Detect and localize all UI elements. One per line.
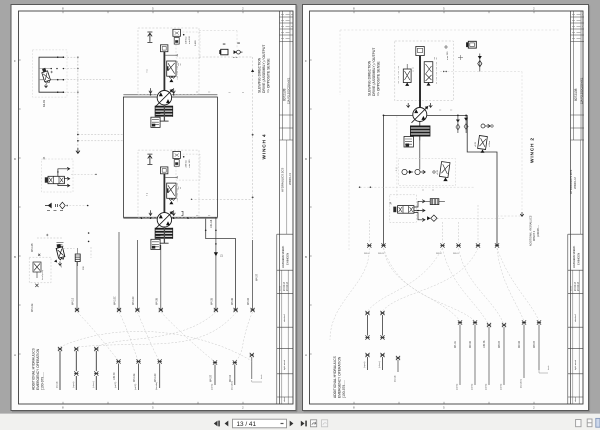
left riser from valve area <box>76 262 78 310</box>
hose plug coupling top <box>219 44 228 55</box>
title block lower section rules <box>568 234 584 397</box>
svg-text:(rat/C): (rat/C) <box>114 382 117 388</box>
frame tick marks left <box>19 60 21 354</box>
riser x=119 <box>118 232 120 310</box>
toolbar background <box>0 413 600 430</box>
svg-text:(hand): (hand) <box>395 375 397 382</box>
svg-text:DRIVE (ASSEMBLY) / OUTPUT: DRIVE (ASSEMBLY) / OUTPUT <box>372 48 376 96</box>
outlet branches with arrows <box>414 200 425 207</box>
svg-text:max 260: max 260 <box>447 51 449 60</box>
svg-text:240 bar: 240 bar <box>185 36 188 44</box>
previous view icon <box>311 420 317 427</box>
winch drive assembly upper (winch 4 drive 1) <box>138 28 200 127</box>
bracket symbol right of lower motor <box>181 211 183 215</box>
svg-text:checked: checked <box>284 315 286 322</box>
brake control valve <box>437 162 450 182</box>
svg-text:LIEBHERR WERK: LIEBHERR WERK <box>281 246 285 268</box>
winch drive assembly (winch 2) <box>399 47 437 170</box>
riser from manifold right bottom <box>215 217 217 310</box>
labeled emergency line Q2 <box>469 320 477 390</box>
motor circle <box>413 108 427 122</box>
dashed stubs above couplings <box>369 205 478 243</box>
svg-text:0-480: 0-480 <box>195 40 197 46</box>
choke stub 2 <box>464 115 468 134</box>
frame tick marks top <box>354 11 534 13</box>
svg-text:(rat/C): (rat/C) <box>456 384 459 390</box>
svg-text:+4 bar: +4 bar <box>488 140 491 147</box>
riser 3 dashed to solid <box>252 197 254 240</box>
labeled emergency line Q3 <box>483 323 491 390</box>
title block revision rows <box>280 17 294 42</box>
svg-text:(hand/vr): (hand/vr) <box>230 381 233 390</box>
frame tick marks left <box>310 60 312 354</box>
svg-text:(rat/C): (rat/C) <box>485 384 488 390</box>
arrow into valve cluster <box>76 148 80 153</box>
svg-text:W2.02: W2.02 <box>469 340 472 348</box>
emergency stub P3 <box>395 356 401 382</box>
svg-text:hand pump: hand pump <box>42 269 44 280</box>
svg-text:W4.07: W4.07 <box>209 374 212 382</box>
svg-text:(hand): (hand) <box>57 381 59 388</box>
arrow on riser <box>214 252 218 256</box>
frame tick marks bottom <box>63 402 243 404</box>
svg-text:W4.10C: W4.10C <box>154 373 157 382</box>
svg-text:min 100: min 100 <box>189 35 191 44</box>
hose couplings row <box>75 308 79 312</box>
boundary dashed lines upper right <box>440 72 522 211</box>
coupling row mid right page <box>367 243 371 247</box>
dashed enclosure of drive <box>395 41 454 101</box>
next page button <box>290 421 294 427</box>
labeled emergency line Q5 <box>518 320 526 388</box>
svg-text:name: name <box>279 285 281 291</box>
emergency line pair P2 <box>379 311 385 370</box>
svg-text:(100-979.....: (100-979..... <box>342 380 346 398</box>
drawing frame <box>19 11 294 404</box>
supply unit ports and stubs <box>51 56 113 93</box>
dashed routing diagonals bottom right page <box>330 248 369 340</box>
svg-text:W9.07: W9.07 <box>498 340 501 348</box>
svg-text:WINCH 2: WINCH 2 <box>530 137 536 163</box>
coupling below emergency box <box>35 284 38 287</box>
emergency line group B2 <box>133 359 141 390</box>
svg-text:23.04.13: 23.04.13 <box>578 281 580 291</box>
svg-text:W4.06: W4.06 <box>231 297 234 305</box>
svg-text:checked: checked <box>575 315 577 322</box>
labeled emergency line Q4 <box>498 323 506 390</box>
title block outer border <box>279 11 281 404</box>
test point coupling top <box>233 43 243 58</box>
continuous view icon <box>587 419 592 427</box>
svg-text:W4.10B: W4.10B <box>31 243 34 252</box>
last page button <box>301 421 305 427</box>
svg-text:W4.10E: W4.10E <box>133 373 136 382</box>
svg-text:sheet: sheet <box>283 397 286 402</box>
svg-text:(handvr): (handvr) <box>155 382 158 390</box>
svg-text:min 100: min 100 <box>189 159 191 168</box>
svg-text:DRIVE (ASSEMBLY) / OUTPUT: DRIVE (ASSEMBLY) / OUTPUT <box>262 45 266 93</box>
svg-text:EMERGENCY OPERATION: EMERGENCY OPERATION <box>36 348 40 390</box>
pilot lines dash-dot <box>399 62 437 84</box>
svg-text:W4.08: W4.08 <box>155 297 158 305</box>
svg-text:23.04.13: 23.04.13 <box>575 281 577 291</box>
svg-text:W4.10C: W4.10C <box>114 296 117 305</box>
directional control valve 34 <box>42 156 97 192</box>
svg-text:B: B <box>14 255 16 259</box>
svg-text:LIEBHERR WERK: LIEBHERR WERK <box>572 246 576 268</box>
revision row entries <box>572 15 584 39</box>
emergency line group C3 <box>250 353 254 379</box>
main pressure line polyline <box>384 115 498 245</box>
dashed link to top couplings <box>199 31 237 49</box>
emergency line group A1 <box>57 347 63 390</box>
svg-text:23.04.13: 23.04.13 <box>284 281 286 291</box>
svg-text:=> OPPOSITE SENSE: => OPPOSITE SENSE <box>377 61 381 96</box>
dashed routing diagonals bottom <box>77 312 118 360</box>
title block outer border <box>570 11 572 404</box>
labeled emergency line Q6 <box>533 320 541 370</box>
brake box <box>404 137 413 148</box>
winch drum <box>410 126 430 128</box>
gauge coupling right <box>481 124 493 128</box>
svg-text:WINCH 2: WINCH 2 <box>573 177 577 189</box>
svg-text:WINCH 4: WINCH 4 <box>288 173 292 185</box>
svg-text:(100-971....: (100-971.... <box>537 224 540 237</box>
svg-text:A: A <box>305 353 307 357</box>
counterbalance valve right <box>424 62 433 83</box>
svg-text:W5.01: W5.01 <box>453 253 460 255</box>
svg-text:W5.03: W5.03 <box>378 253 385 255</box>
svg-text:W4.10C: W4.10C <box>132 296 135 305</box>
emergency line group C2 <box>229 360 237 390</box>
first page button <box>214 421 218 427</box>
svg-text:23.04.13: 23.04.13 <box>287 281 289 291</box>
dashed linking lines mid <box>360 186 475 188</box>
title block column lines <box>282 11 290 140</box>
title block lower section rules <box>277 234 293 397</box>
two-page view icon (active) <box>596 418 600 427</box>
svg-text:ADDITIONAL HYDRAULICS: ADDITIONAL HYDRAULICS <box>32 347 36 390</box>
emergency line group A3 <box>93 347 99 390</box>
riser x=137 <box>136 240 138 310</box>
svg-text:F: F <box>305 59 307 63</box>
svg-text:SLEWING DIRECTION: SLEWING DIRECTION <box>258 57 262 93</box>
pilot riser from supply to valve <box>77 58 79 149</box>
frame tick marks top <box>63 11 243 13</box>
check choke on boundary <box>478 54 482 72</box>
left page sheet <box>11 5 297 412</box>
hook-up note bracket <box>252 380 262 382</box>
pressure reducing valve mid-left <box>38 232 89 267</box>
brake release valve left <box>403 69 411 83</box>
supply unit upper-left dashed enclosure <box>32 50 67 97</box>
svg-text:8072138: 8072138 <box>282 88 286 101</box>
pilot dashed drop <box>349 100 397 250</box>
single page view icon <box>576 420 581 427</box>
svg-text:10K-G8: 10K-G8 <box>210 219 213 228</box>
emergency line group B1 <box>113 359 121 390</box>
svg-text:hydr. winch: hydr. winch <box>284 360 286 370</box>
svg-text:240 bar: 240 bar <box>185 160 188 168</box>
valve outlet branch mid <box>64 177 69 180</box>
svg-text:HYDRAULICS 2CS: HYDRAULICS 2CS <box>281 168 285 192</box>
svg-text:13A-P3L3G3C2E6+001: 13A-P3L3G3C2E6+001 <box>580 77 583 104</box>
svg-text:105.70: 105.70 <box>113 372 116 380</box>
svg-text:hook: hook <box>548 366 550 370</box>
svg-text:W4.05: W4.05 <box>210 297 213 305</box>
svg-text:+135: +135 <box>437 169 439 175</box>
svg-text:K2-03: K2-03 <box>42 100 46 107</box>
emergency line pair P1 <box>364 311 370 370</box>
frame tick marks bottom <box>354 402 534 404</box>
pilot dashed tie right <box>71 173 96 175</box>
dashed riser line <box>252 57 254 197</box>
svg-text:WINCH 4: WINCH 4 <box>261 134 267 160</box>
title block column lines <box>573 11 581 140</box>
riser x=161 below drum <box>160 245 162 310</box>
svg-text:WINCH 2: WINCH 2 <box>533 230 536 241</box>
svg-text:W1.01: W1.01 <box>454 340 457 348</box>
svg-text:(close): (close) <box>93 381 95 388</box>
drawing number cell divider <box>571 115 585 140</box>
micro annotation specks <box>146 57 452 216</box>
quick coupling row below valve <box>45 202 88 210</box>
previous page button <box>225 421 229 427</box>
port plate block <box>416 47 425 56</box>
inline orifice block <box>75 248 80 266</box>
title block revision rows <box>571 17 585 42</box>
emergency line group C1 <box>209 360 217 390</box>
svg-text:13A-P3L3G3C2E6+001: 13A-P3L3G3C2E6+001 <box>287 77 290 104</box>
riser 2 <box>206 219 236 310</box>
svg-text:(rat/C): (rat/C) <box>134 384 137 390</box>
supply unit body <box>39 57 64 92</box>
svg-text:(rat/C): (rat/C) <box>500 384 503 390</box>
gauge stub top <box>458 55 463 60</box>
svg-text:EHINGEN: EHINGEN <box>286 253 290 265</box>
right page sheet <box>303 5 590 412</box>
dashed layout boundary upper <box>340 30 560 95</box>
svg-text:B: B <box>305 255 307 259</box>
svg-text:(rat/C): (rat/C) <box>471 384 474 390</box>
svg-text:W9.07: W9.07 <box>533 340 536 348</box>
svg-text:EHINGEN: EHINGEN <box>577 253 581 265</box>
bold supply line <box>419 56 421 107</box>
svg-text:W2.43: W2.43 <box>229 374 232 382</box>
center line through lower motor <box>123 217 217 219</box>
next view icon (disabled) <box>322 420 328 427</box>
svg-text:(rat/C): (rat/C) <box>211 384 214 390</box>
arrowhead into note <box>520 212 524 216</box>
svg-text:(100-979.....: (100-979..... <box>41 372 45 390</box>
svg-text:(open): (open) <box>73 381 75 388</box>
svg-text:(open): (open) <box>364 361 366 368</box>
dashed link lines mid <box>37 237 63 239</box>
svg-text:EMERGENCY OPERATION: EMERGENCY OPERATION <box>338 356 342 398</box>
svg-text:105.76: 105.76 <box>483 340 486 348</box>
branch drop at motor left <box>383 115 385 245</box>
drawing frame <box>310 11 584 404</box>
svg-text:W4.10E: W4.10E <box>31 303 34 312</box>
svg-text:W4.10: W4.10 <box>72 297 75 305</box>
svg-text:(close): (close) <box>379 361 381 368</box>
svg-text:(hand/vr): (hand/vr) <box>520 379 523 388</box>
svg-text:hydr. winch: hydr. winch <box>575 360 577 370</box>
node dots on dashed riser <box>252 134 254 136</box>
small marks near enclosure top <box>444 45 448 49</box>
svg-text:hook: hook <box>261 375 263 379</box>
emergency pump dashed box <box>29 257 51 283</box>
svg-text:W2.03: W2.03 <box>518 340 521 348</box>
svg-text:8072138: 8072138 <box>574 88 578 101</box>
brake shuttle valve <box>475 136 491 153</box>
labeled emergency line Q1 <box>454 320 462 390</box>
svg-text:=> OPPOSITE SENSE: => OPPOSITE SENSE <box>267 58 271 93</box>
emergency line group B3 <box>154 359 162 390</box>
center line through upper motor <box>123 94 217 96</box>
hook-up note bracket <box>539 370 548 373</box>
hose plug coupling top right <box>466 41 476 48</box>
drain arrows beside circle <box>407 103 410 107</box>
valve outlet branch up <box>58 167 70 176</box>
page number field <box>233 419 287 428</box>
dashed tie line lower <box>191 198 253 200</box>
svg-text:sheet: sheet <box>574 397 577 402</box>
emergency line group A2 <box>73 347 79 390</box>
svg-text:W5.02: W5.02 <box>436 253 443 255</box>
svg-text:W4.03: W4.03 <box>247 297 250 305</box>
relief valve in supply unit <box>41 67 51 83</box>
revision row entries <box>281 15 293 39</box>
svg-text:F: F <box>14 59 16 63</box>
svg-text:A: A <box>14 353 16 357</box>
drain diamond <box>427 215 437 221</box>
dashed tie line upper <box>199 56 253 58</box>
svg-text:SLEWING DIRECTION: SLEWING DIRECTION <box>368 60 372 96</box>
svg-text:ADDITIONAL HYDRAULICS: ADDITIONAL HYDRAULICS <box>333 355 337 398</box>
choke stub 1 <box>456 115 460 134</box>
svg-text:name: name <box>570 285 572 291</box>
gauge pair mid <box>402 169 435 174</box>
drawing number cell divider <box>280 115 294 140</box>
svg-text:13 / 41: 13 / 41 <box>237 421 257 428</box>
winch drive assembly lower (winch 4 drive 2) <box>138 150 200 249</box>
valve outlet branch down <box>58 184 70 187</box>
svg-text:W4.07: W4.07 <box>256 273 259 281</box>
cooler block <box>426 199 445 205</box>
main manifold rectangle <box>123 97 217 217</box>
emergency release valve 34 <box>390 195 425 223</box>
svg-text:+135: +135 <box>475 141 477 147</box>
svg-text:W5.04: W5.04 <box>364 253 371 255</box>
